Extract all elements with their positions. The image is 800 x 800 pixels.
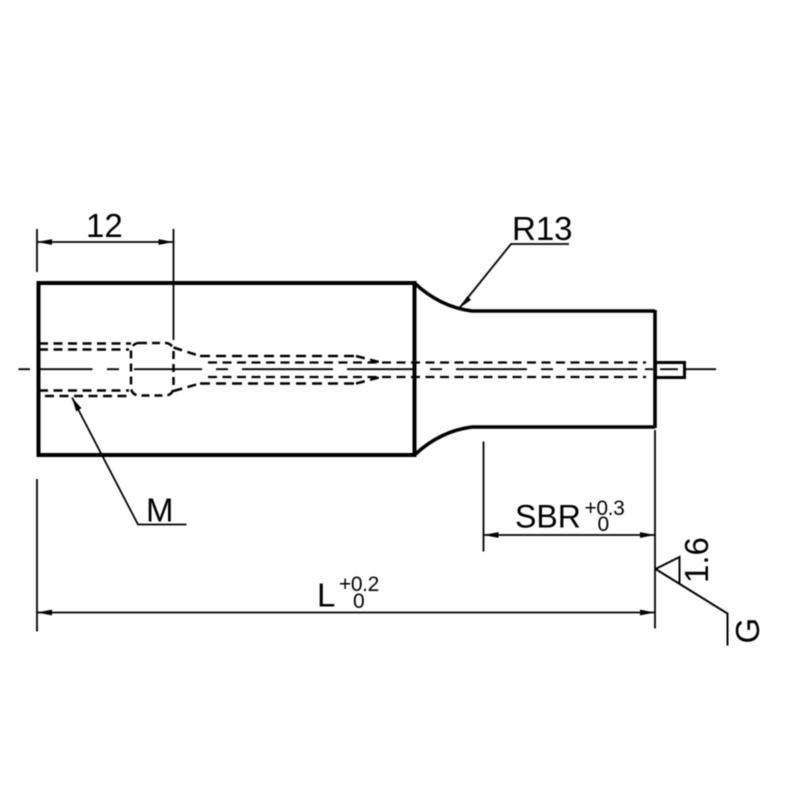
hidden taper pocket to passage bottom xyxy=(174,384,201,392)
svg-text:0: 0 xyxy=(598,513,610,536)
shaft right end face xyxy=(653,310,657,428)
hidden thread relief pocket xyxy=(131,343,174,396)
svg-text:1.6: 1.6 xyxy=(678,537,715,583)
hidden passage bore bottom xyxy=(200,382,356,385)
hidden cone end top xyxy=(356,356,381,363)
dimension L extension line left xyxy=(36,479,38,632)
surface finish symbol triangle xyxy=(656,557,680,584)
leader line R13 xyxy=(460,244,570,308)
svg-text:G: G xyxy=(729,618,766,644)
dimension SBR / L extension line right xyxy=(654,430,656,629)
dimension SBR line xyxy=(484,534,656,536)
hidden small bore bottom xyxy=(208,376,646,378)
svg-text:12: 12 xyxy=(86,207,123,244)
dimension L line xyxy=(37,612,655,614)
dimension SBR extension line left xyxy=(483,442,485,552)
hidden thread minor line top xyxy=(39,348,129,351)
dimension 12 extension line left xyxy=(36,229,38,272)
svg-text:R13: R13 xyxy=(512,210,573,247)
arrowhead SBR left xyxy=(484,532,499,538)
hidden small bore top xyxy=(208,361,646,363)
hidden thread major line top xyxy=(39,342,131,345)
arrowhead R13 leader xyxy=(460,296,472,308)
tip stub at right end xyxy=(656,363,685,378)
svg-text:SBR: SBR xyxy=(515,499,581,535)
part body large cylinder rectangle xyxy=(39,283,415,455)
arrowhead SBR right xyxy=(640,532,655,538)
arrowhead L left xyxy=(37,610,52,616)
arrowhead L right xyxy=(640,610,655,616)
leader line M xyxy=(72,398,187,525)
arrowhead 12 right xyxy=(159,239,174,245)
centerline axis xyxy=(19,368,717,370)
svg-text:M: M xyxy=(146,492,174,529)
hidden passage bore top xyxy=(200,355,356,358)
hidden thread minor line bottom xyxy=(39,389,129,392)
fillet R13 top curve and shaft top line xyxy=(415,283,656,311)
arrowhead 12 left xyxy=(37,239,52,245)
svg-text:L: L xyxy=(317,577,335,614)
dimension 12 extension line right xyxy=(173,229,175,340)
svg-text:0: 0 xyxy=(353,590,365,613)
hidden taper pocket to passage top xyxy=(174,348,201,357)
hidden cone end bottom xyxy=(356,377,381,384)
hidden thread major line bottom xyxy=(45,395,131,398)
surface finish symbol long leg xyxy=(656,569,728,646)
arrowhead M leader xyxy=(72,398,82,412)
dimension 12 line xyxy=(37,241,174,243)
fillet bottom curve and shaft bottom line xyxy=(415,427,656,455)
